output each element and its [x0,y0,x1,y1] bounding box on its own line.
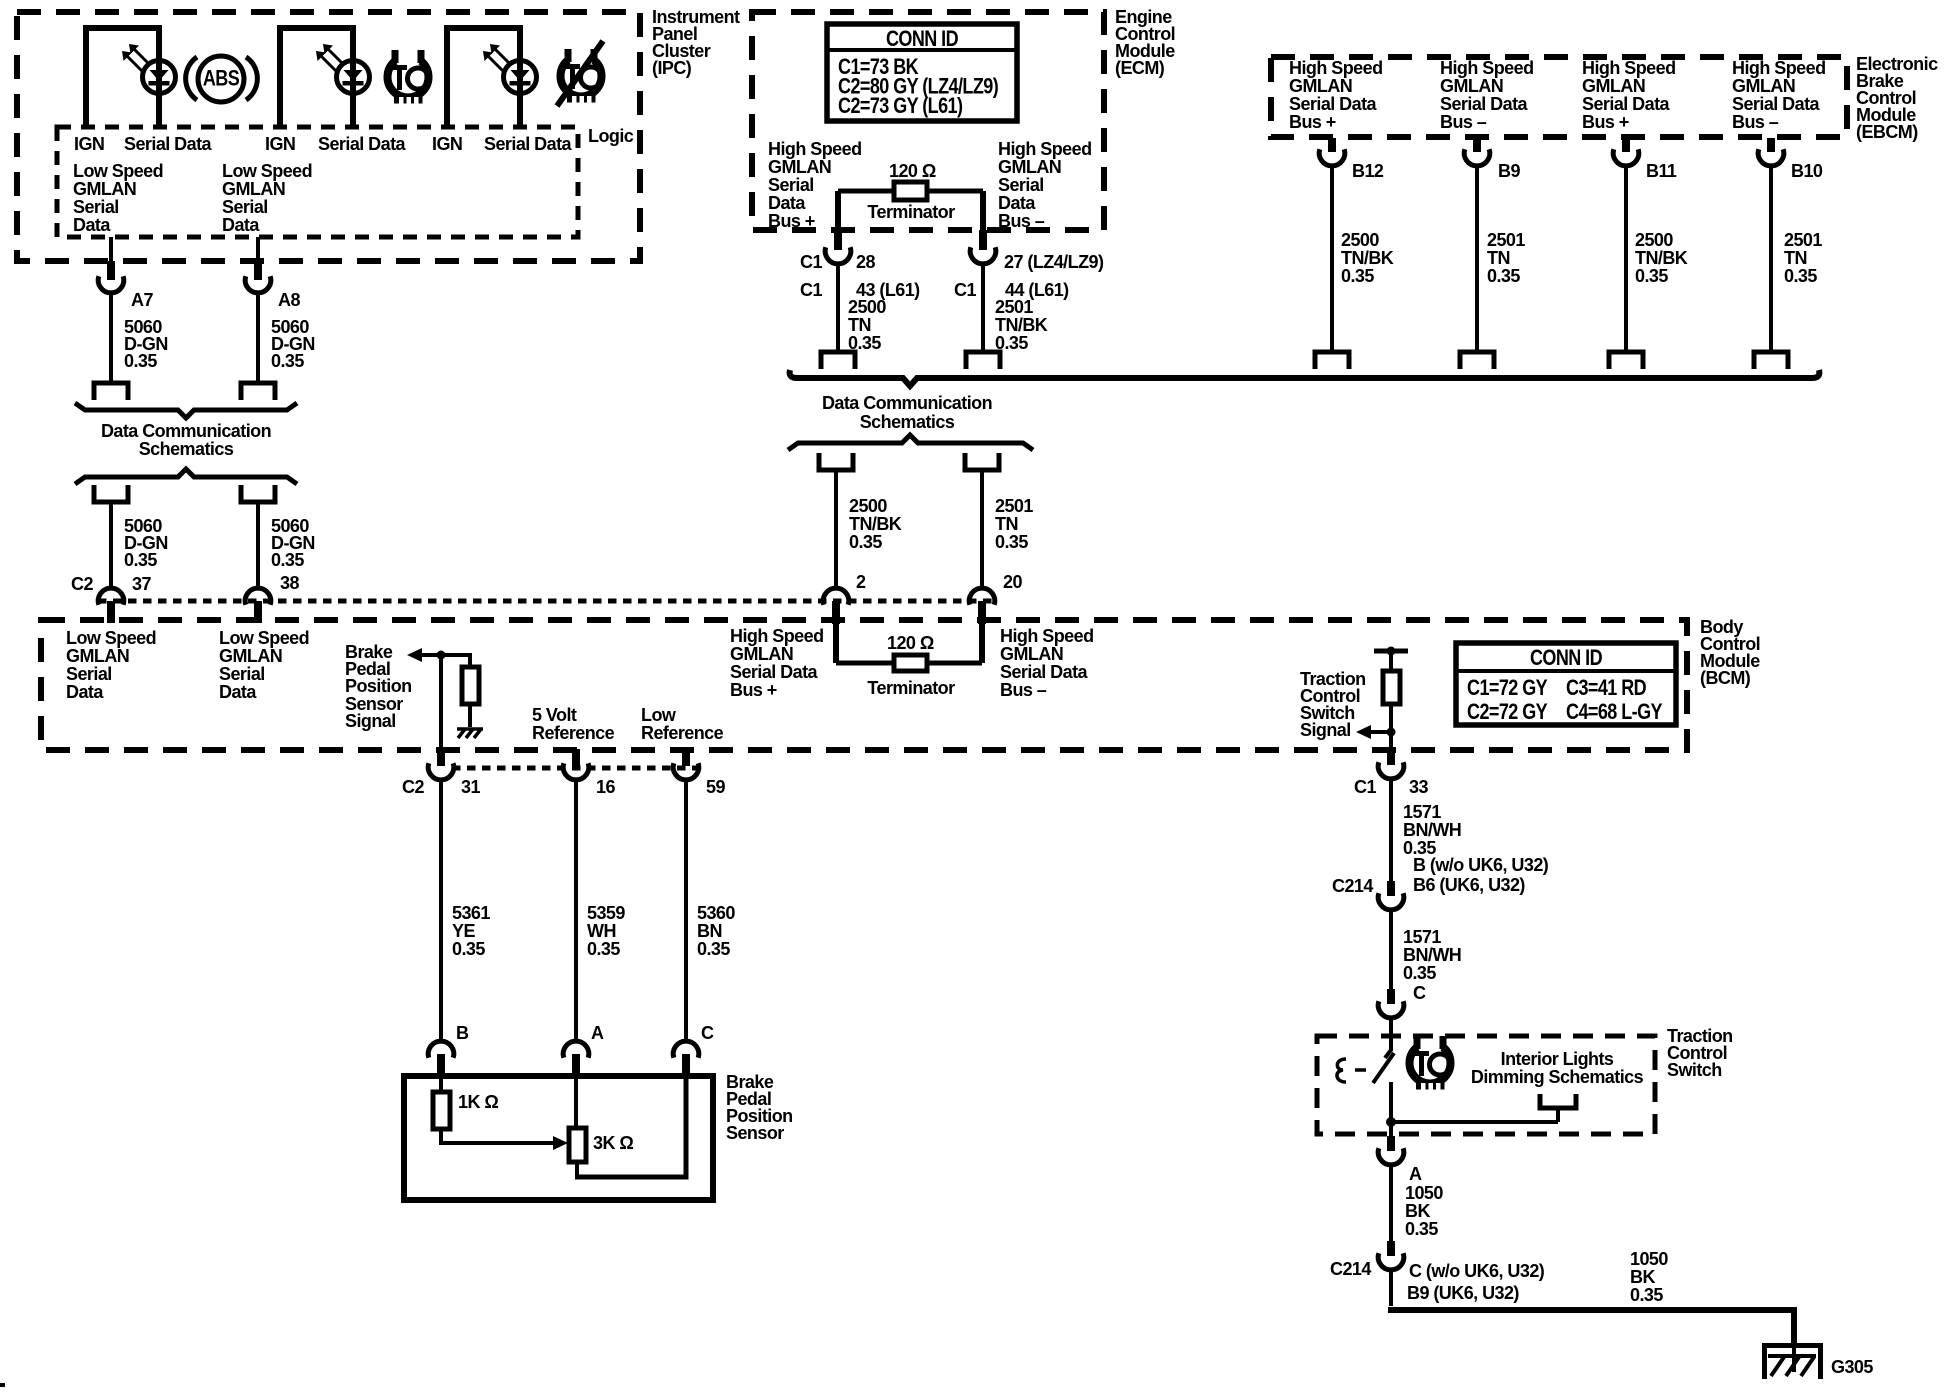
svg-text:C: C [701,1023,714,1043]
label Traction Control Switch [1667,1026,1733,1080]
svg-text:0.35: 0.35 [271,351,304,371]
label ECM name [1115,7,1175,78]
svg-text:High Speed: High Speed [730,626,824,646]
connector BCM C1 pin 33 [1387,749,1395,765]
svg-text:GMLAN: GMLAN [219,646,282,666]
svg-text:GMLAN: GMLAN [1000,644,1063,664]
svg-text:GMLAN: GMLAN [1440,76,1503,96]
connector line C2 at BCM top [98,599,997,604]
svg-text:Position: Position [345,676,412,696]
svg-text:B11: B11 [1646,161,1677,181]
svg-text:1050: 1050 [1630,1249,1668,1269]
ground G305 [1765,1346,1821,1380]
svg-text:0.35: 0.35 [1784,266,1817,286]
svg-text:(EBCM): (EBCM) [1856,122,1918,142]
module box ECM [752,12,1104,230]
svg-text:Terminator: Terminator [867,678,955,698]
traction signal arrow [1387,728,1396,737]
wire 2500 TN (ECM) [836,262,840,352]
svg-text:0.35: 0.35 [697,939,730,959]
svg-text:Serial Data: Serial Data [1289,94,1378,114]
svg-text:Serial: Serial [219,664,265,684]
connector EBCM B9 [1473,138,1481,152]
switch box [1317,1036,1655,1134]
terminal B10 to bus [1754,352,1788,369]
label High Speed bus + (BCM) [730,626,824,700]
svg-text:CONN ID: CONN ID [1530,646,1602,670]
svg-text:GMLAN: GMLAN [1732,76,1795,96]
ABS icon [186,56,258,102]
connector ECM C1 pin 27 [970,247,996,264]
svg-text:B12: B12 [1352,161,1384,181]
svg-text:GMLAN: GMLAN [73,179,136,199]
svg-text:0.35: 0.35 [1487,266,1520,286]
wire into switch [1385,1016,1391,1058]
svg-text:Reference: Reference [532,723,615,743]
svg-text:Interior Lights: Interior Lights [1501,1049,1614,1069]
svg-text:37: 37 [132,574,151,594]
svg-text:TN: TN [1784,248,1807,268]
svg-text:27 (LZ4/LZ9): 27 (LZ4/LZ9) [1004,252,1104,272]
svg-text:High Speed: High Speed [768,139,862,159]
ground (BCM internal) [457,729,483,738]
svg-text:0.35: 0.35 [1341,266,1374,286]
svg-text:0.35: 0.35 [1405,1219,1438,1239]
svg-text:C214: C214 [1332,876,1373,896]
svg-text:5 Volt: 5 Volt [532,705,577,725]
svg-text:1571: 1571 [1403,927,1441,947]
svg-text:0.35: 0.35 [1635,266,1668,286]
svg-text:A: A [1409,1164,1422,1184]
svg-text:Bus +: Bus + [730,680,777,700]
svg-text:31: 31 [461,777,480,797]
svg-text:2500: 2500 [848,297,886,317]
svg-text:Serial: Serial [222,197,268,217]
label High Speed GMLAN Serial Data Bus + (ECM) [768,139,862,231]
svg-text:IGN: IGN [432,134,462,154]
CONN ID table ECM [827,24,1017,121]
svg-text:Reference: Reference [641,723,724,743]
svg-text:Data Communication: Data Communication [822,393,992,413]
svg-text:B (w/o UK6, U32): B (w/o UK6, U32) [1413,855,1549,875]
svg-text:Low: Low [641,705,677,725]
svg-text:2501: 2501 [1487,230,1525,250]
wire 5060 D-GN to pin 38 [256,502,260,590]
label BCM name [1700,617,1760,688]
svg-text:0.35: 0.35 [1630,1285,1663,1305]
connector switch pin A [1387,1136,1395,1151]
svg-text:TN: TN [995,514,1018,534]
svg-text:B10: B10 [1791,161,1823,181]
svg-text:0.35: 0.35 [271,550,304,570]
label Low Speed GMLAN Serial Data (left) [73,161,163,235]
wire 2501 TN/BK (ECM) [981,262,985,352]
svg-text:B: B [456,1023,469,1043]
svg-text:C3=41 RD: C3=41 RD [1566,676,1646,700]
svg-text:2501: 2501 [995,496,1033,516]
svg-text:0.35: 0.35 [124,351,157,371]
connector A7 [98,276,124,293]
data bus line with brace tick [790,370,1820,386]
svg-text:Low Speed: Low Speed [219,628,309,648]
wire switch output [1389,1082,1393,1136]
svg-text:CONN ID: CONN ID [886,27,958,51]
svg-text:Data Communication: Data Communication [101,421,271,441]
svg-text:B9: B9 [1498,161,1520,181]
svg-text:TN/BK: TN/BK [1341,248,1394,268]
terminal from bus (pin 2) [819,453,853,470]
label High Speed bus - (B10) [1732,58,1826,132]
svg-text:Low Speed: Low Speed [73,161,163,181]
wire ECM bus+ leg [835,191,841,232]
svg-text:2500: 2500 [849,496,887,516]
svg-text:C2: C2 [71,574,93,594]
svg-text:TN: TN [1487,248,1510,268]
svg-text:Serial Data: Serial Data [1582,94,1671,114]
svg-text:Serial Data: Serial Data [124,134,213,154]
svg-text:Bus –: Bus – [1732,112,1779,132]
potentiometer 3K [574,1078,578,1128]
connector EBCM B12 [1328,138,1336,152]
node switch junction [1386,1117,1396,1127]
svg-text:IGN: IGN [74,134,104,154]
label IPC name [652,7,740,78]
svg-text:WH: WH [587,921,616,941]
svg-text:(BCM): (BCM) [1700,668,1751,688]
wire 5360 BN [684,780,688,1043]
svg-text:GMLAN: GMLAN [768,157,831,177]
svg-text:Data: Data [222,215,260,235]
svg-text:2: 2 [856,572,866,592]
svg-text:Schematics: Schematics [139,439,234,459]
CONN ID table BCM [1456,643,1676,725]
svg-text:33: 33 [1409,777,1428,797]
svg-text:59: 59 [706,777,725,797]
wire wiper arm [441,1129,553,1143]
connector line C2 at BCM bottom [452,766,706,771]
wire IPC pin A7 drop [109,237,113,262]
module box BCM [41,620,1687,750]
svg-text:Serial Data: Serial Data [1440,94,1529,114]
svg-text:High Speed: High Speed [1289,58,1383,78]
svg-text:1571: 1571 [1403,802,1441,822]
wire ECM bus- leg [980,191,986,232]
connector EBCM B10 [1767,138,1775,152]
connector BCM pin 16 [572,749,580,766]
svg-text:2500: 2500 [1341,230,1379,250]
svg-text:Signal: Signal [345,711,396,731]
svg-text:2500: 2500 [1635,230,1673,250]
label Low Speed GMLAN Serial Data (right) [222,161,312,235]
svg-text:C2=72 GY: C2=72 GY [1467,700,1548,724]
svg-text:C214: C214 [1330,1259,1371,1279]
wire brake signal to pin 31 [439,655,443,750]
svg-text:0.35: 0.35 [124,550,157,570]
label Brake Pedal Position Sensor Signal [345,642,412,731]
connector EBCM B11 [1622,138,1630,152]
label Brake Pedal Position Sensor [726,1072,793,1143]
wire 2501 TN (B10) [1769,164,1773,352]
svg-text:20: 20 [1003,572,1022,592]
svg-text:GMLAN: GMLAN [66,646,129,666]
svg-text:Serial Data: Serial Data [1732,94,1821,114]
svg-text:TN/BK: TN/BK [995,315,1048,335]
svg-text:Bus –: Bus – [1000,680,1047,700]
connector ECM C1 pin 28 [825,247,851,264]
wire 5359 WH [574,780,578,1043]
svg-text:BN/WH: BN/WH [1403,820,1461,840]
TC off tire icon [557,41,603,106]
svg-text:BN/WH: BN/WH [1403,945,1461,965]
svg-text:GMLAN: GMLAN [222,179,285,199]
wire 5060 D-GN (A7) [109,291,113,383]
terminal from data schematics (38) [241,485,275,502]
resistor BCM traction input [1389,651,1393,671]
svg-text:120 Ω: 120 Ω [889,161,936,181]
svg-text:(IPC): (IPC) [652,58,692,78]
svg-text:TN: TN [848,315,871,335]
svg-text:Data: Data [73,215,111,235]
svg-text:G305: G305 [1831,1357,1873,1377]
connector BCM pin 59 [682,749,690,766]
svg-text:5360: 5360 [697,903,735,923]
svg-text:B9 (UK6, U32): B9 (UK6, U32) [1407,1283,1519,1303]
svg-text:1K Ω: 1K Ω [458,1092,498,1112]
svg-text:Data: Data [998,193,1036,213]
brace over 37/38 wires [75,469,297,484]
wire 2500 TN/BK to pin 2 [834,470,838,590]
connector BCM C2 pin 31 [437,749,445,766]
labels IGN / Serial Data row [74,134,573,154]
label Traction Control Switch Signal [1300,669,1366,740]
wire 1050 BK upper [1389,1163,1393,1241]
svg-text:0.35: 0.35 [995,532,1028,552]
svg-text:0.35: 0.35 [452,939,485,959]
svg-text:C (w/o UK6, U32): C (w/o UK6, U32) [1409,1261,1545,1281]
indicator LED 2 [316,44,370,94]
svg-text:High Speed: High Speed [1440,58,1534,78]
brace under A7/A8 [75,403,297,418]
svg-text:Logic: Logic [588,126,634,146]
svg-text:C: C [1413,983,1426,1003]
connector BCM pin 2 [823,588,849,605]
svg-text:Serial Data: Serial Data [730,662,819,682]
svg-text:0.35: 0.35 [1403,963,1436,983]
svg-text:Bus –: Bus – [998,211,1045,231]
svg-text:16: 16 [596,777,615,797]
wire 1050 BK lower [1630,1249,1668,1305]
module box EBCM [1271,57,1847,137]
svg-text:(ECM): (ECM) [1115,58,1165,78]
terminal ECM bus- to bus [966,352,1000,369]
TC icon (switch) [1410,1036,1451,1091]
label High Speed bus - (B9) [1440,58,1534,132]
svg-text:Serial Data: Serial Data [484,134,573,154]
svg-text:C1: C1 [800,252,822,272]
indicator LED 3 [483,44,537,94]
svg-text:Signal: Signal [1300,720,1351,740]
svg-text:ABS: ABS [203,67,239,91]
svg-text:5359: 5359 [587,903,625,923]
svg-text:Bus +: Bus + [1289,112,1336,132]
svg-text:GMLAN: GMLAN [1582,76,1645,96]
svg-text:Data: Data [768,193,806,213]
terminal from bus (pin 20) [965,453,999,470]
svg-text:38: 38 [280,573,299,593]
lamp box 1 (ABS indicator) [86,28,159,127]
svg-text:High Speed: High Speed [1732,58,1826,78]
terminal to data schematics (A8) [241,383,275,400]
brake pedal signal arrow [407,648,422,662]
svg-text:Serial Data: Serial Data [1000,662,1089,682]
svg-text:BN: BN [697,921,722,941]
connector BCM C2 pin 38 [245,588,271,605]
svg-text:GMLAN: GMLAN [1289,76,1352,96]
svg-text:Low Speed: Low Speed [222,161,312,181]
wire 2501 TN to pin 20 [980,470,984,590]
svg-text:GMLAN: GMLAN [730,644,793,664]
svg-text:High Speed: High Speed [1582,58,1676,78]
label Low Reference [641,705,724,743]
svg-text:A: A [591,1023,604,1043]
svg-text:0.35: 0.35 [587,939,620,959]
terminal B9 to bus [1460,352,1494,369]
svg-text:C1=72 GY: C1=72 GY [1467,676,1548,700]
svg-text:Data: Data [66,682,104,702]
svg-text:Serial: Serial [998,175,1044,195]
svg-text:Switch: Switch [1667,1060,1722,1080]
svg-text:A8: A8 [278,290,300,310]
indicator LED 1 [122,44,176,94]
svg-text:Data: Data [219,682,257,702]
label High Speed GMLAN Serial Data Bus - (ECM) [998,139,1092,231]
svg-text:BK: BK [1630,1267,1655,1287]
svg-text:Bus +: Bus + [1582,112,1629,132]
svg-text:Serial: Serial [73,197,119,217]
wire IPC pin A8 drop [256,237,260,262]
svg-text:Terminator: Terminator [867,202,955,222]
svg-text:High Speed: High Speed [1000,626,1094,646]
module box IPC [17,12,640,261]
svg-text:TN/BK: TN/BK [849,514,902,534]
label Interior Lights Dimming Schematics [1471,1049,1644,1087]
wire 1571 BN/WH lower [1389,908,1393,989]
terminal ECM bus+ to bus [821,352,855,369]
wire 1571 BN/WH upper [1389,777,1393,881]
svg-text:TN/BK: TN/BK [1635,248,1688,268]
label High Speed bus + (B11) [1582,58,1676,132]
svg-text:C1: C1 [954,280,976,300]
lamp box 3 (TC off indicator) [447,28,520,127]
svg-text:Low Speed: Low Speed [66,628,156,648]
terminal from data schematics (37) [94,485,128,502]
traction switch signal input bar [1374,649,1408,654]
svg-text:YE: YE [452,921,475,941]
wire 2500 TN/BK (B12) [1330,164,1334,352]
label Data Communication Schematics (left) [101,421,271,459]
svg-text:A7: A7 [131,290,153,310]
logic inner dashed box [57,127,578,237]
label High Speed bus - (BCM) [1000,626,1094,700]
connector sensor pin A [563,1041,589,1058]
svg-text:C1: C1 [1354,777,1376,797]
svg-text:Bus –: Bus – [1440,112,1487,132]
svg-text:28: 28 [856,252,875,272]
svg-text:Serial: Serial [66,664,112,684]
wire 2500 TN/BK (B11) [1624,164,1628,352]
resistor BCM brake input [468,655,472,667]
wire 5060 D-GN to pin 37 [109,502,113,590]
svg-text:B6 (UK6, U32): B6 (UK6, U32) [1413,875,1525,895]
connector sensor pin C [673,1041,699,1058]
svg-text:0.35: 0.35 [849,532,882,552]
resistor 1K [439,1078,443,1092]
terminal B11 to bus [1609,352,1643,369]
label EBCM name [1856,54,1938,142]
lamp box 2 (TC indicator) [280,28,353,127]
connector BCM pin 20 [969,588,995,605]
label Low Speed GMLAN (BCM left 1) [66,628,156,702]
wire 5361 YE [439,780,443,1043]
label High Speed bus + (B12) [1289,58,1383,132]
svg-text:C2=73 GY (L61): C2=73 GY (L61) [838,94,962,118]
svg-text:3K Ω: 3K Ω [593,1133,633,1153]
switch blade [1373,1053,1394,1083]
svg-text:Sensor: Sensor [726,1123,784,1143]
node brake signal junction [437,651,446,660]
svg-text:C2: C2 [402,777,424,797]
label Low Speed GMLAN (BCM left 2) [219,628,309,702]
connector A8 [245,276,271,293]
svg-text:IGN: IGN [265,134,295,154]
TC tire icon [388,50,429,105]
sensor box [404,1076,713,1200]
terminal to dimming schematics [1540,1094,1576,1108]
terminal to data schematics (A7) [94,383,128,400]
label 5 Volt Reference [532,705,615,743]
wire 2501 TN (B9) [1475,164,1479,352]
svg-text:BK: BK [1405,1201,1430,1221]
svg-text:Serial: Serial [768,175,814,195]
svg-text:Dimming Schematics: Dimming Schematics [1471,1067,1644,1087]
svg-text:Schematics: Schematics [860,412,955,432]
switch spring [1337,1059,1346,1082]
svg-text:Bus +: Bus + [768,211,815,231]
svg-text:120 Ω: 120 Ω [887,633,934,653]
svg-text:2501: 2501 [1784,230,1822,250]
connector BCM C2 pin 37 [98,588,124,605]
svg-text:GMLAN: GMLAN [998,157,1061,177]
connector sensor pin B [428,1041,454,1058]
svg-text:5361: 5361 [452,903,490,923]
svg-text:Serial Data: Serial Data [318,134,407,154]
svg-text:2501: 2501 [995,297,1033,317]
svg-text:C1: C1 [800,280,822,300]
wire 5060 D-GN (A8) [256,291,260,383]
terminal B12 to bus [1315,352,1349,369]
svg-text:C4=68 L-GY: C4=68 L-GY [1566,700,1663,724]
svg-text:High Speed: High Speed [998,139,1092,159]
svg-text:1050: 1050 [1405,1183,1443,1203]
brace over BCM bus wires [788,435,1033,450]
label Data Communication Schematics (middle) [822,393,992,432]
stray mark bottom left [0,1383,5,1387]
wire pot return [575,1162,579,1177]
